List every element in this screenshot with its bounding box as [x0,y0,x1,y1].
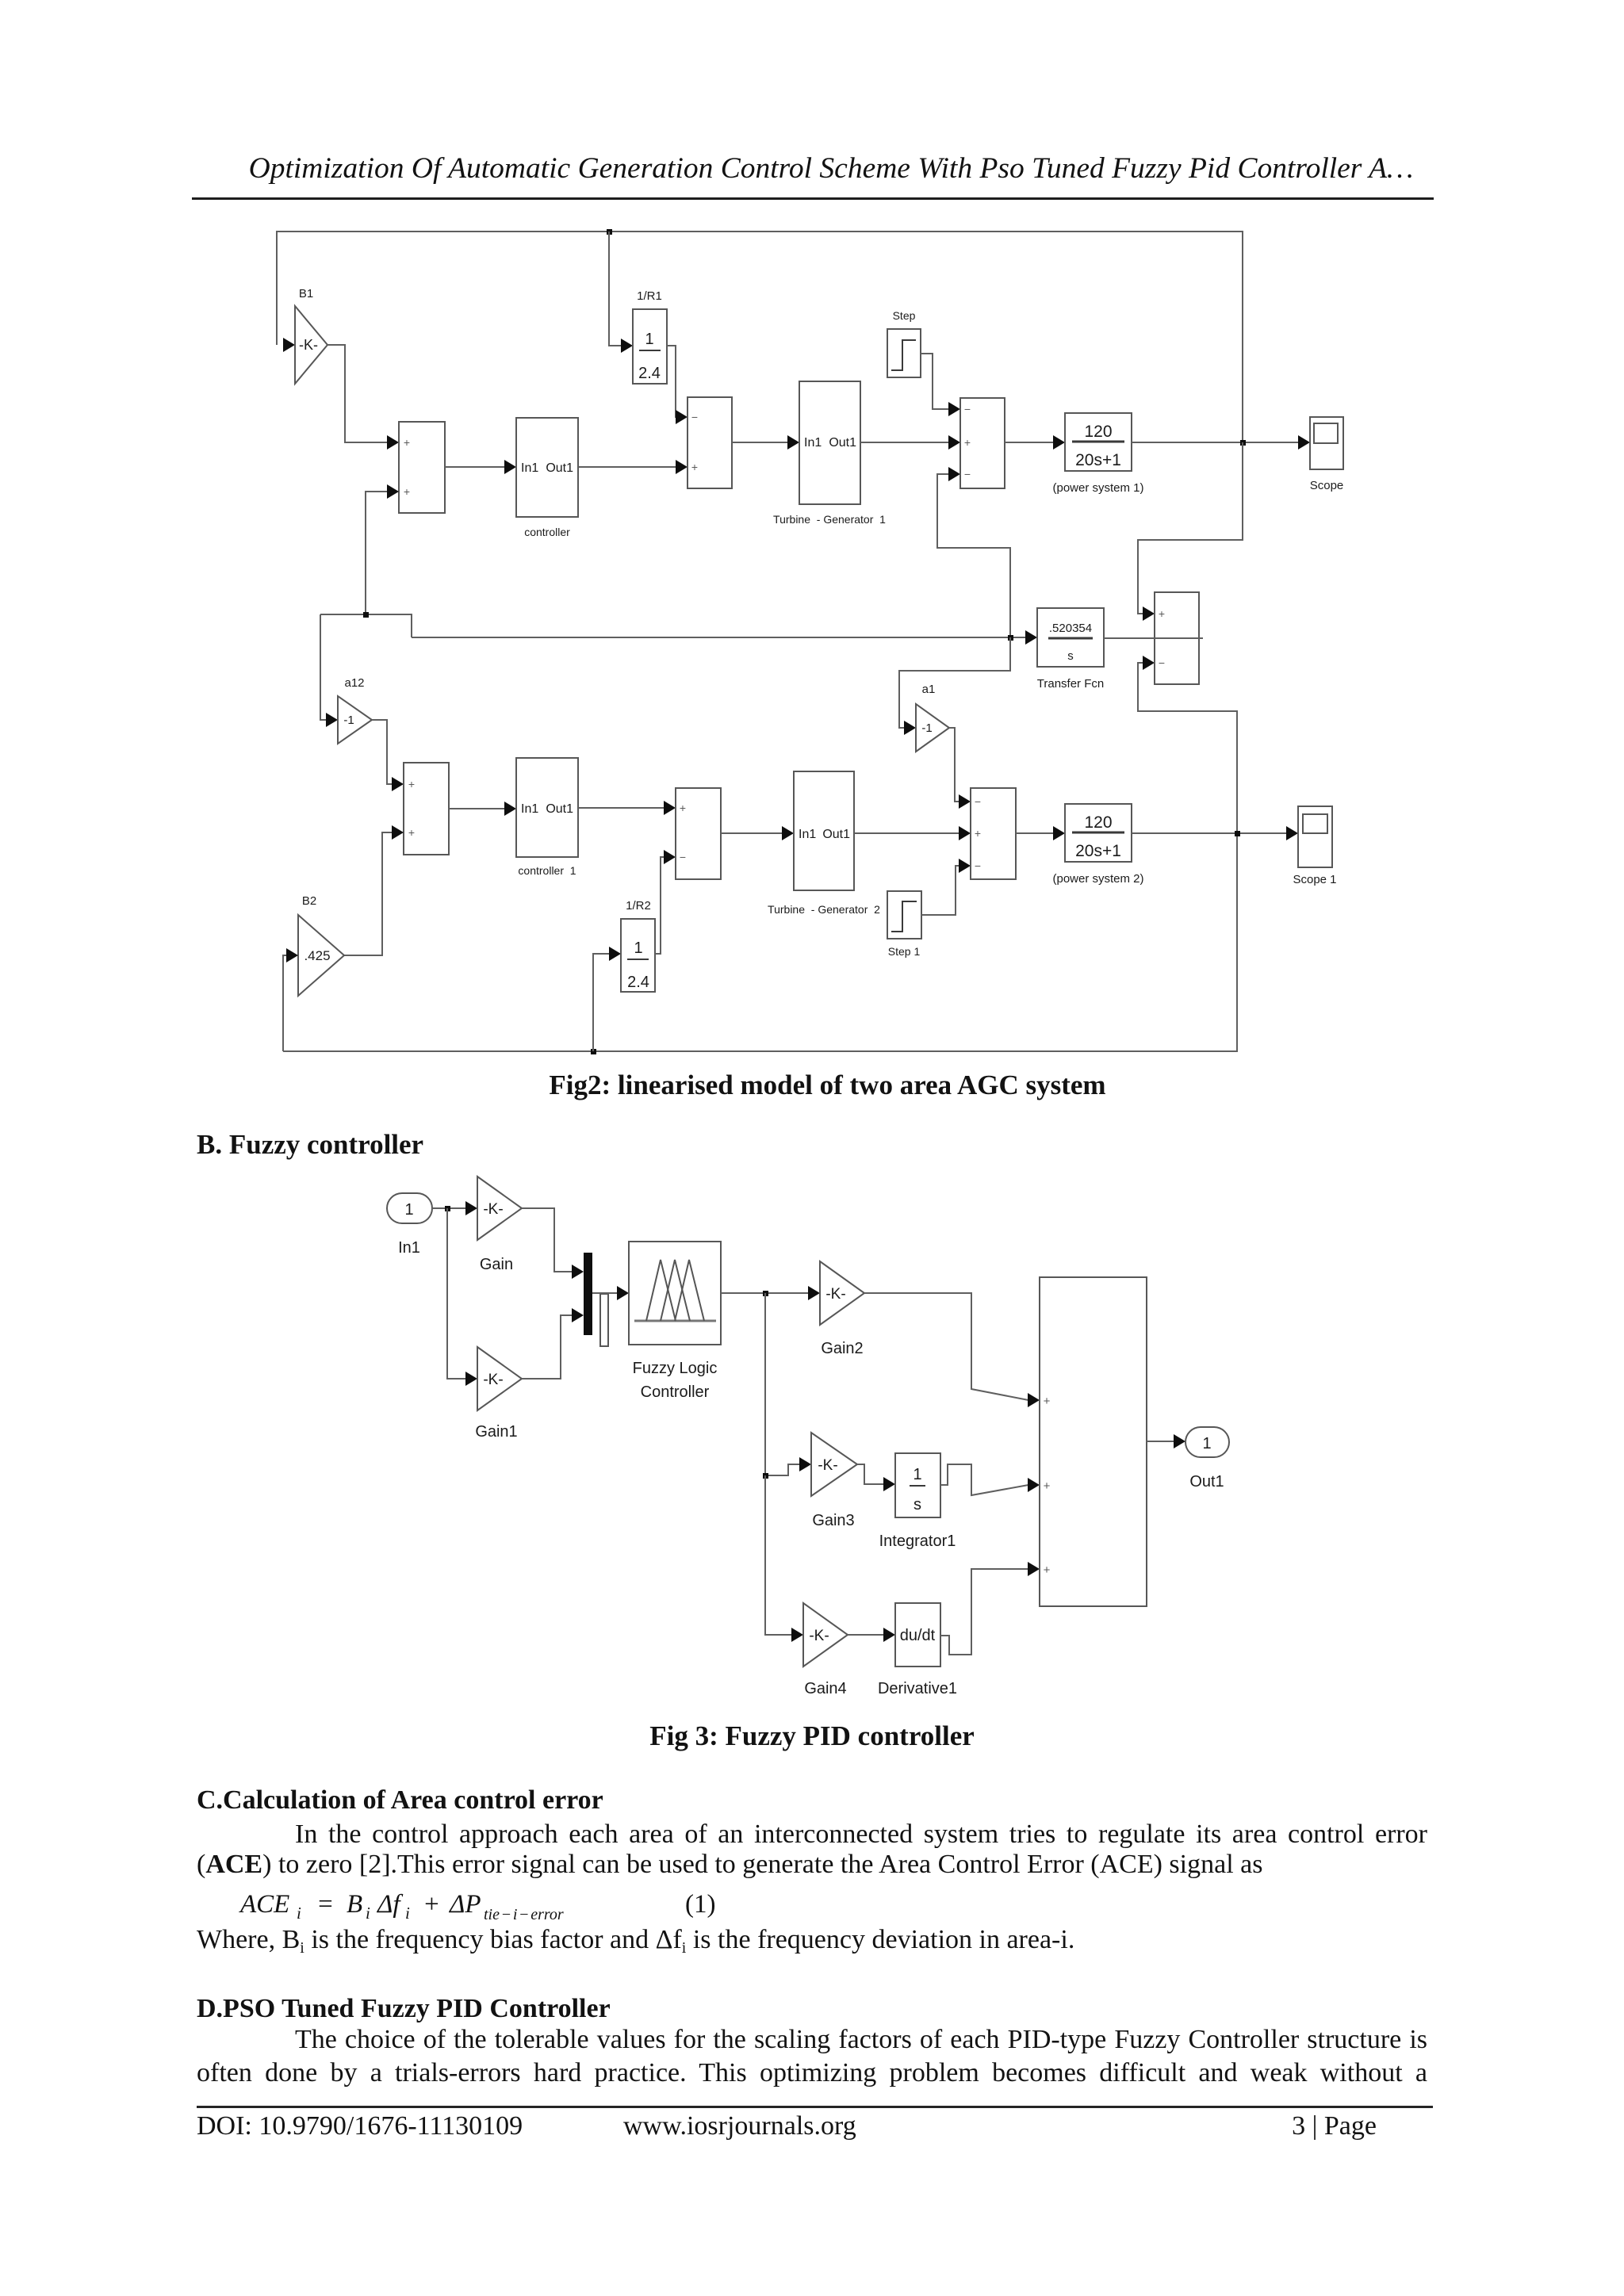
svg-text:Controller: Controller [641,1383,710,1401]
svg-text:In1: In1 [521,802,538,816]
svg-text:−: − [975,859,981,872]
wire into gain B1 [283,338,295,352]
label Scope 1 [1293,873,1336,886]
svg-text:−: − [680,851,686,863]
wire Df2 up to tie-line comparator minus input [1138,656,1237,833]
svg-text:20s+1: 20s+1 [1075,842,1121,860]
label (power system 2) [1052,872,1143,886]
wire Df2 bottom feedback run [283,833,1237,1051]
block Scope [1310,417,1343,469]
svg-text:-K-: -K- [299,337,318,353]
svg-text:-K-: -K- [825,1286,845,1303]
label (power system 1) [1052,481,1143,495]
svg-text:Step: Step [893,309,916,322]
wire Integrator1 output to Sum plus input 2 [940,1464,1040,1495]
wire Gain2 output to Sum plus input 1 [864,1293,1040,1407]
label controller [524,526,570,538]
svg-text:Scope: Scope [1310,479,1344,492]
svg-text:Gain4: Gain4 [804,1680,846,1697]
svg-text:Out1: Out1 [829,436,856,450]
svg-text:−: − [964,468,971,480]
label Gain1 [475,1423,517,1441]
section heading B [197,1129,423,1161]
svg-text:Gain: Gain [480,1256,513,1273]
wire up to 1/R2 input [593,947,621,1051]
sum Sum2 (governor input area 1) [688,397,732,488]
mux Mux (solid bar) [584,1253,592,1335]
wire Turbine-Generator 1 output to Sum3 plus input [860,435,960,450]
junction FLC output fanout node [763,1291,768,1296]
svg-text:+: + [408,826,415,839]
figure 2: linearised model of two area AGC system [277,229,1343,1054]
block Scope 1 [1298,806,1332,867]
svg-text:(power system 1): (power system 1) [1052,481,1143,495]
wire Fuzzy Logic Controller output to Gain2 [721,1286,820,1300]
svg-text:a1: a1 [922,683,936,696]
svg-text:Derivative1: Derivative1 [878,1680,957,1697]
svg-text:1: 1 [913,1466,921,1483]
wire In1 to Gain [432,1201,477,1215]
caption figure 2 [0,1070,1624,1101]
gain Gain2 [820,1261,864,1325]
svg-text:+: + [408,778,415,790]
svg-text:-1: -1 [343,714,354,727]
wire tie-line down to gain a12 [320,614,338,727]
block Derivative1 du/dt [895,1603,940,1667]
footer page [197,2111,1377,2141]
wire tie-line left branch distribution [320,614,412,637]
svg-text:Out1: Out1 [546,461,573,475]
wire FLC signal down to Gain3 [765,1293,811,1475]
header rule [192,197,1434,200]
running head title [0,151,1624,186]
gain B1 [295,306,327,384]
wire a1 output to Sum6 first minus input [949,728,971,809]
block controller (area 1) [516,418,578,517]
svg-text:In1: In1 [398,1239,420,1257]
block Turbine - Generator 1 [799,381,860,504]
label a1 [922,683,936,696]
gain Gain3 [811,1433,857,1496]
svg-text:-K-: -K- [809,1628,829,1644]
sum Sum4 (ACE area 2) [404,763,449,855]
svg-text:Scope 1: Scope 1 [1293,873,1336,886]
wire Sum output to Out1 [1147,1434,1185,1448]
block 1/R1 droop [633,309,667,384]
wire Gain3 output to Integrator1 [857,1464,895,1491]
label a12 [344,676,364,690]
wire a12 output to Sum4 first input [372,720,404,791]
svg-text:+: + [680,802,686,814]
svg-text:+: + [975,827,981,840]
svg-text:s: s [1067,649,1074,663]
gain a1 [916,704,949,752]
svg-text:Gain1: Gain1 [475,1423,517,1441]
wire 1/R1 output to Sum2 minus input [667,346,688,424]
wire tie-line into Transfer Fcn [412,630,1037,645]
svg-text:+: + [691,461,698,473]
svg-text:Out1: Out1 [822,828,850,841]
wire Sum3 output to power system 1 [1005,435,1065,450]
svg-text:Gain3: Gain3 [812,1512,854,1529]
svg-text:1: 1 [645,331,653,348]
wire tie-line power to Sum3 second minus input [937,467,1010,637]
wire Gain1 output to Mux second input [522,1308,584,1379]
svg-text:-K-: -K- [818,1457,837,1474]
svg-text:20s+1: 20s+1 [1075,451,1121,469]
svg-text:B1: B1 [299,287,313,300]
svg-text:du/dt: du/dt [900,1627,936,1644]
label Out1 [1189,1473,1224,1490]
svg-text:+: + [1159,607,1165,620]
wire B2 output to Sum4 second input [344,825,404,955]
junction Gain3 tap node [763,1473,768,1479]
sum tie-line comparator (Df1 - Df2) [1155,592,1199,684]
gain Gain4 [803,1603,848,1667]
label Step [893,309,916,322]
sum Sum5 (governor input area 2) [676,788,721,879]
svg-text:Integrator1: Integrator1 [879,1533,956,1550]
svg-text:In1: In1 [521,461,538,475]
svg-text:a12: a12 [344,676,364,690]
wire Df1 top feedback (power system 1 output up and across to B1 and 1/R1) [277,232,1243,442]
svg-text:.425: .425 [304,948,330,963]
block controller 1 (area 2) [516,758,578,857]
svg-text:2.4: 2.4 [638,365,661,382]
label In1 [398,1239,420,1257]
equation (1) [240,1890,289,1919]
svg-text:-K-: -K- [483,1201,503,1218]
paragraph D line 1 [295,2025,1427,2055]
port In1 (inport oval) [387,1193,432,1223]
svg-text:Turbine - Generator 2: Turbine - Generator 2 [768,903,880,916]
svg-text:120: 120 [1084,423,1112,441]
footer DOI [197,2111,523,2141]
svg-text:In1: In1 [804,436,822,450]
caption figure 3 [0,1720,1624,1752]
junction Df1 to 1/R1 tap [607,229,612,235]
junction tie-line left node [363,612,369,618]
sum Sum (PID output adder) [1040,1277,1147,1606]
svg-text:controller 1: controller 1 [518,864,576,877]
sum Sum1 (ACE area 1) [399,422,445,513]
block power system 2 transfer function 120/(20s+1) [1065,804,1132,862]
block Step 1 (load disturbance area 2) [887,891,921,939]
label Scope [1310,479,1344,492]
svg-text:-1: -1 [921,721,932,735]
gain a12 [338,696,372,744]
label Transfer Fcn [1037,677,1104,691]
svg-text:−: − [1159,656,1165,669]
wire Df1 down to 1/R1 input [609,232,633,353]
svg-text:+: + [1044,1563,1051,1577]
svg-text:+: + [404,436,410,449]
svg-text:Gain2: Gain2 [821,1340,863,1357]
label controller 1 [518,864,576,877]
svg-text:+: + [404,485,410,498]
wire controller 1 output to Sum5 plus input [578,801,676,815]
gain B2 [298,915,344,996]
block Integrator1 1/s [895,1453,940,1517]
svg-text:1/R1: 1/R1 [637,289,662,303]
svg-text:controller: controller [524,526,570,538]
wire Transfer Fcn output stub through comparator [1104,637,1203,639]
paragraph C line 2 [197,1850,1262,1880]
paragraph C line 1 [295,1820,1427,1850]
label Gain2 [821,1340,863,1357]
block demux slim outline [600,1294,608,1346]
block Step (load disturbance area 1) [887,329,921,377]
wire 1/R2 output to Sum5 minus input [655,850,676,954]
svg-text:+: + [1044,1395,1051,1408]
section heading D [197,1994,611,2024]
block power system 1 transfer function 120/(20s+1) [1065,413,1132,471]
label Derivative1 [878,1680,957,1697]
svg-text:.520354: .520354 [1049,622,1092,635]
port Out1 (outport oval) [1185,1427,1229,1457]
svg-text:−: − [691,411,698,423]
wire Sum1 output to controller In1 [445,460,516,474]
svg-text:−: − [964,403,971,415]
wire FLC signal down to Gain4 [765,1475,803,1642]
svg-text:1: 1 [634,939,642,957]
svg-text:2.4: 2.4 [627,974,649,991]
wire Df2 feedback into B2 [283,948,298,1051]
label Gain [480,1256,513,1273]
footer rule [197,2106,1433,2108]
svg-text:-K-: -K- [483,1372,503,1388]
wire controller Out1 to Sum2 plus input [578,460,688,474]
junction tie-line node at Transfer Fcn input [1008,635,1013,641]
sum Sum6 (load frequency sum area 2) [971,788,1016,879]
svg-text:Fuzzy Logic: Fuzzy Logic [633,1360,718,1377]
wire power system 1 output to Scope [1132,435,1310,450]
svg-text:+: + [1044,1479,1051,1493]
wire Sum2 output to Turbine-Generator 1 [732,435,799,450]
svg-text:Transfer Fcn: Transfer Fcn [1037,677,1104,691]
svg-text:(power system 2): (power system 2) [1052,872,1143,886]
wire tie-line node down to gain a1 [899,637,1010,735]
svg-text:120: 120 [1084,813,1112,832]
wire Turbine-Generator 2 output to Sum6 plus input [854,826,971,840]
svg-text:−: − [975,795,981,808]
wire Mux output to Fuzzy Logic Controller [592,1286,629,1300]
wire Df1 down to tie-line comparator plus input [1138,442,1243,621]
svg-text:1: 1 [404,1201,413,1219]
paragraph C line 3 [197,1925,1074,1957]
gain Gain [477,1177,522,1240]
footer site [623,2111,856,2141]
label 1/R1 [637,289,662,303]
sum Sum3 (load frequency sum area 1) [960,398,1005,488]
block 1/R2 droop [621,919,655,992]
label B2 [302,894,316,908]
gain Gain1 [477,1347,522,1410]
block Transfer Fcn .520354/s [1037,608,1104,667]
junction Df1 output node [1240,440,1246,446]
wire Derivative1 output to Sum plus input 3 [940,1562,1040,1655]
svg-text:Out1: Out1 [1189,1473,1224,1490]
label Integrator1 [879,1533,956,1550]
junction In1 fanout node [445,1206,450,1211]
section heading C [197,1785,603,1816]
wire Sum5 output to Turbine-Generator 2 [721,826,794,840]
wire In1 down to Gain1 [447,1208,477,1386]
block Turbine - Generator 2 [794,771,854,890]
svg-text:B2: B2 [302,894,316,908]
svg-text:1: 1 [1202,1435,1211,1452]
wire Step output to Sum3 first minus input [921,354,960,416]
label Turbine - Generator 1 [773,513,886,526]
wire Step 1 output to Sum6 minus input [921,859,971,915]
label Step 1 [888,945,921,958]
svg-text:+: + [964,436,971,449]
figure 3: Fuzzy PID controller [387,1177,1229,1697]
label Gain4 [804,1680,846,1697]
label Gain3 [812,1512,854,1529]
wire Gain output to Mux first input [522,1208,584,1279]
block Fuzzy Logic Controller [629,1242,721,1345]
svg-text:In1: In1 [799,828,816,841]
wire power system 2 output to Scope 1 [1132,826,1298,840]
junction Df2 output node [1235,831,1240,836]
wire B1 output to Sum1 first input [327,345,399,450]
paragraph D line 2 [197,2058,1427,2088]
svg-text:s: s [913,1496,921,1513]
svg-text:Turbine - Generator 1: Turbine - Generator 1 [773,513,886,526]
label Turbine - Generator 2 [768,903,880,916]
wire Sum4 output to controller 1 [449,802,516,816]
junction Df2 to 1/R2 tap [591,1049,596,1054]
wire Gain4 output to Derivative1 [848,1628,895,1642]
label 1/R2 [626,899,651,913]
svg-text:Step 1: Step 1 [888,945,921,958]
wire tie-line signal to Sum1 second input [366,484,399,614]
svg-text:1/R2: 1/R2 [626,899,651,913]
svg-text:Out1: Out1 [546,802,573,816]
label Fuzzy Logic Controller [633,1360,718,1401]
label B1 [299,287,313,300]
wire Sum6 output to power system 2 [1016,826,1065,840]
